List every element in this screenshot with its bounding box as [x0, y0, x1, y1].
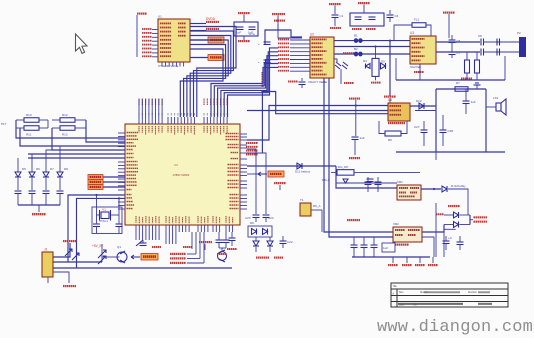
net label DVDD right of U1 [206, 17, 219, 23]
wire R11 ends [16, 127, 48, 129]
label below VR2 [395, 244, 409, 246]
svg-text:+: + [258, 42, 260, 46]
caps above VR1 [365, 177, 382, 192]
wire loop right [485, 89, 487, 152]
wire vr right vert b [443, 229, 455, 257]
svg-text:AT89C 51RD2: AT89C 51RD2 [173, 173, 190, 177]
svg-text:C?a: C?a [249, 32, 255, 36]
wire bundle jog to U6 pin3 [262, 92, 388, 114]
svg-text:D5: D5 [22, 167, 26, 171]
U4 right pins and pin labels [226, 133, 248, 209]
wire loop bottom [396, 151, 505, 153]
connector T1 [300, 198, 311, 216]
ferrite bead B1 on net1 [354, 34, 363, 43]
svg-text:D11 battery: D11 battery [295, 170, 311, 174]
boxed net label PWM1 [141, 254, 158, 261]
diode D13 schottky [442, 184, 466, 192]
label below U1 [158, 64, 179, 68]
net labels left of U2 [278, 39, 310, 72]
cap C20 below U4 [216, 232, 223, 248]
net label left edge [1, 122, 7, 126]
svg-text:R7: R7 [456, 81, 460, 85]
wire crystal right leg [111, 198, 120, 223]
wire bus line3 [20, 128, 125, 146]
svg-text:C?IIa/IIb-VCCa: C?IIa/IIb-VCCa [158, 64, 179, 68]
cap C27 [414, 121, 428, 146]
wire R10 ends [16, 119, 48, 121]
wire U4 to U6 pin2 [247, 110, 388, 112]
wire left vert C [86, 120, 125, 142]
power label AVDD top [329, 3, 341, 5]
wire diode array bottom rail [18, 204, 60, 206]
wire U2 to U3 net2 [334, 46, 410, 48]
wire caps box to DVSS [243, 36, 245, 40]
diode D4 left of R3 [363, 59, 370, 69]
wire L1 right into U3 [426, 25, 431, 36]
mouse cursor [76, 34, 88, 53]
wire T1 net down [321, 210, 323, 232]
power label +VDD left of U6 [349, 98, 360, 100]
resistor R4 [465, 52, 470, 80]
power label DVSS below C2 [352, 28, 362, 30]
power label PVDD right [448, 205, 460, 207]
U4 top pins and pin labels [138, 113, 227, 135]
diode D5 right of R3 [381, 60, 386, 70]
label below U3 [410, 65, 421, 69]
wire DVDD to caps box [243, 15, 245, 23]
wire T1 right [311, 204, 322, 210]
net label vertical on bundle [262, 72, 264, 87]
svg-text:+: + [258, 60, 260, 64]
net label blue near U1 box [249, 32, 255, 36]
power label VSS below U4 a [152, 246, 161, 248]
svg-text:R13: R13 [62, 133, 68, 137]
wire left vert B [47, 120, 49, 128]
caps row below VR2 b [361, 237, 368, 257]
wire U1 pin to DVDD [190, 23, 206, 25]
wire array to DVDD [38, 205, 40, 212]
wire U4 to U6 pin1 [247, 106, 388, 141]
resistor R6 below U6 [385, 131, 401, 142]
diode D17 small [343, 179, 348, 183]
wire battery net down to VR1 [336, 166, 397, 188]
wire U4 bottom stubs g1 [136, 232, 159, 240]
cap C8 series [478, 34, 484, 46]
wire PWM0 to U4 [103, 176, 125, 178]
IC U6 [388, 98, 410, 121]
svg-text:D-Schottky: D-Schottky [451, 184, 466, 188]
boxed net label PWM0 [88, 175, 103, 180]
cap C6 [449, 35, 461, 47]
svg-text:1uF: 1uF [360, 136, 365, 140]
boxed net label PWM2 [88, 185, 103, 190]
wire VR2 out b [422, 237, 434, 257]
wire PWM1 to U4 [103, 181, 125, 183]
power label DVDD top mid [272, 13, 285, 15]
wire U4 to battery diode [247, 165, 336, 167]
diode D16 [267, 237, 273, 252]
diode D11 battery [295, 163, 311, 174]
power label DVSS below C3 [366, 28, 376, 30]
svg-text:R11: R11 [26, 133, 32, 137]
wire DVDD loop [265, 30, 302, 44]
power label +VDD above U6 [384, 96, 396, 98]
svg-text:R12: R12 [62, 113, 68, 117]
diode D14b [444, 222, 470, 228]
wire DVDD to C2C3 [363, 5, 365, 14]
svg-text:Title: Title [393, 285, 398, 288]
junction X1 [95, 194, 97, 196]
power label AVSS below J1 [53, 272, 76, 287]
diode D7 with cap C14 [43, 163, 55, 205]
wire VR1 out [421, 188, 441, 190]
optocoupler arrows b [65, 249, 79, 260]
power label +5V_A above J1 [63, 240, 77, 242]
power label DVSS below R3 [371, 82, 381, 84]
svg-text:C1: C1 [340, 14, 344, 18]
ground top right [474, 83, 481, 89]
power label DVSS below U2 left [288, 81, 298, 83]
svg-text:XTAL1: XTAL1 [99, 219, 108, 223]
cap C below U2 [299, 78, 306, 88]
svg-text:1uF: 1uF [471, 100, 476, 104]
capacitors C2 C3 box [350, 13, 384, 26]
svg-text:fOa?/aE: fOa?/aE [410, 65, 421, 69]
svg-text:U2: U2 [310, 33, 314, 37]
wire diode cluster [415, 110, 436, 112]
power label DVDD above U2 bundle [274, 20, 285, 31]
connector P2 [517, 31, 526, 57]
wire Q1 base [102, 256, 115, 258]
cap Ca below U2 right [334, 59, 341, 69]
power label AVSS below C25 [349, 157, 360, 159]
power labels below VR2 rail [388, 257, 438, 266]
wire loop to speaker [486, 106, 496, 108]
cap C9 series [481, 49, 484, 56]
power label VSS below C18 [227, 248, 237, 250]
net labels above U4 top pins group1 [138, 99, 162, 106]
wire J1 pin2 [53, 261, 102, 263]
svg-text:D12: D12 [416, 99, 422, 103]
svg-text:C22: C22 [287, 240, 293, 244]
cap C32 [457, 236, 464, 250]
wire left vert A [16, 120, 125, 138]
wire C20 C21 join [219, 248, 226, 252]
label below U6 [388, 122, 405, 124]
cap C24 [263, 215, 274, 222]
svg-text:Size: Size [399, 292, 404, 294]
net label above-left of U1 [137, 13, 147, 15]
wire U1 pin to AVSS [190, 30, 206, 32]
wire R12 ends [52, 119, 86, 121]
net label VDD2 [436, 213, 444, 215]
wire +VDD to U6 [389, 98, 391, 103]
boxed net label PWM1 [88, 180, 103, 185]
power label +VDD right of U4 [274, 182, 286, 190]
cap C18 [229, 232, 236, 246]
power label DVDD top2 [358, 2, 370, 4]
power label +3VDD [474, 221, 488, 223]
diode D12 [416, 99, 424, 109]
power label VSS below U4 b [183, 246, 192, 248]
cap C1 [332, 6, 344, 27]
svg-text:R6: R6 [388, 138, 392, 142]
wire left of U1 down [136, 15, 138, 57]
title block [391, 283, 508, 307]
cap C4 [387, 10, 399, 22]
cap C7 [449, 47, 461, 58]
resistor R13 [60, 126, 75, 137]
wire U3 right pin1 [436, 41, 480, 43]
wire J1 pin3 long [53, 267, 232, 269]
wire R13 ends [52, 127, 86, 129]
IC VR1 regulator [397, 180, 421, 200]
wire VDD cap chain [355, 100, 357, 136]
crystal circuit box [92, 207, 122, 234]
svg-text:U4: U4 [174, 163, 178, 167]
wire VR2 bottom rail [352, 256, 430, 258]
power label DVDD above C10 [238, 12, 250, 14]
capacitors C10 C11 [234, 22, 258, 36]
wire BT1 to U4 [247, 173, 258, 175]
cap box C30 [382, 243, 395, 252]
cap C26 in loop [463, 89, 476, 114]
svg-text:DVDD: DVDD [206, 17, 216, 21]
svg-text:D9: D9 [250, 221, 254, 225]
svg-text:www.diangon.com: www.diangon.com [377, 318, 533, 337]
power label AVDD right of U3 [443, 12, 455, 14]
wire U3 bottom to rail [396, 58, 420, 80]
wire loop top [436, 88, 486, 90]
resistor R7 on loop top [455, 81, 468, 91]
cap C28 [440, 115, 454, 146]
power label AVDD below C22 [274, 257, 283, 259]
svg-text:B2: B2 [354, 47, 358, 51]
wire U3 right pin2 [436, 51, 480, 53]
resistor R5 [475, 52, 480, 80]
diode D8 with cap C15 [57, 163, 69, 205]
wire U2 bottom to LDO area A [324, 78, 393, 232]
wire after D13 [448, 189, 468, 215]
svg-text:T1: T1 [300, 198, 304, 202]
wire diode join [470, 215, 473, 225]
IC U1 [158, 15, 190, 63]
svg-text:VR2: VR2 [393, 222, 399, 226]
U4 bottom pins and pin labels [135, 216, 233, 232]
power label AVDD below D15 [256, 257, 269, 259]
svg-text:C4: C4 [395, 14, 399, 18]
cap Cb below U2 right [341, 62, 348, 84]
wire bus line6 [28, 157, 125, 159]
boxed net label BT1 [268, 171, 284, 177]
IC U4 AT89C51RD2 [125, 124, 240, 225]
cap on bundle a [258, 42, 271, 46]
svg-text:Rst_DP: Rst_DP [338, 165, 348, 169]
wire U4 bottom stubs g2 [166, 232, 176, 244]
wire J1 pin4 [47, 277, 49, 283]
svg-text:U3: U3 [410, 31, 414, 35]
resistor R11 [24, 126, 39, 137]
net labels PVDD AVDD DVDD [170, 253, 204, 264]
junction x355 y105 [355, 104, 357, 106]
wire vr right vert a [435, 203, 437, 257]
wire L1 left to net1 [394, 25, 412, 40]
diode D5 with cap C12 [15, 163, 27, 205]
wire J1 pin1 [53, 243, 70, 257]
wire DVDD down to IC2 net [278, 16, 302, 39]
power label DVDD below array [32, 213, 46, 215]
wire U1 pin to boxed label1 [190, 39, 208, 41]
svg-text:VR1: VR1 [397, 180, 403, 184]
cap C25 [352, 136, 365, 155]
svg-text:C28: C28 [448, 129, 454, 133]
power label +5VDD [474, 216, 488, 218]
junction net2 [374, 45, 376, 47]
wire loop left [435, 89, 437, 152]
boxed net label VB2 [208, 55, 224, 61]
arrow to BT1 [258, 172, 267, 176]
net labels above U4 top pins group2 [203, 99, 227, 106]
cap on bundle b [258, 60, 271, 64]
wire loop vert down [435, 152, 437, 160]
cap C16 [93, 224, 100, 234]
svg-text:U1: U1 [158, 15, 162, 19]
svg-text:Y1: Y1 [102, 208, 106, 212]
svg-text:C24: C24 [268, 216, 274, 220]
svg-text:C23: C23 [245, 216, 251, 220]
wire caps to connector2 [484, 51, 520, 53]
junction net1b [389, 40, 391, 42]
wire U1 pin to boxed label2 [190, 57, 208, 59]
cap C8b [497, 39, 500, 46]
diode D14a [444, 212, 470, 218]
wire U2 to U3 net1 [334, 40, 410, 42]
IC U2 [310, 33, 334, 79]
wire bottom rail right [396, 79, 505, 81]
svg-text:D4: D4 [363, 59, 367, 63]
arrow to PWM label [131, 255, 140, 259]
wire PWM2 to U4 [103, 186, 125, 188]
resistor R3 vertical [372, 47, 379, 81]
wire bundle down right of U4 [261, 92, 263, 154]
power label DVSS below U2 right [344, 82, 354, 84]
cap C19 below U4 [136, 240, 147, 246]
optocoupler arrows [92, 244, 106, 264]
resistor R10 [24, 113, 39, 122]
U1 bottom pin stubs [162, 62, 184, 67]
wire R6 loop [379, 121, 407, 134]
cap C22 [280, 236, 293, 248]
net label 5VDDIN on net3 [343, 52, 354, 54]
power label AVSS near R4R5 [461, 78, 472, 80]
cap C17 [116, 224, 123, 234]
svg-text:1uF: 1uF [236, 31, 241, 35]
svg-text:Q1: Q1 [117, 245, 121, 249]
IC U3 [410, 31, 436, 64]
inductor L1 [412, 18, 426, 28]
power label +VDD mid-bottom [199, 241, 212, 250]
IC VR2 regulator [393, 222, 422, 242]
resistor R12 [60, 113, 75, 122]
svg-text:D6: D6 [36, 167, 40, 171]
label below U2 [308, 80, 327, 84]
wire X2 net [77, 198, 126, 268]
transistor Q1 [115, 245, 127, 263]
svg-text:C27: C27 [414, 125, 420, 129]
svg-text:Revision: Revision [468, 292, 478, 294]
staircase wires U1 to U4 [180, 27, 236, 118]
svg-text:P1?: P1? [1, 122, 7, 126]
wire opto vert [101, 244, 103, 262]
wires U4 pins to PVDD labels [196, 232, 204, 263]
boxed net label VB1 [208, 37, 224, 43]
net labels left of U1 [142, 28, 158, 57]
crystal Y1 [99, 208, 111, 223]
caps row below VR2 c [371, 237, 378, 257]
wire rail to connector [504, 56, 506, 80]
net label AVSS right of U1 [206, 28, 219, 30]
svg-text:C8: C8 [478, 34, 482, 38]
net labels right of U4 [246, 142, 258, 155]
watermark www.diangon.com [377, 318, 533, 337]
wire bus line4 [52, 128, 125, 150]
wire into VR1 low [336, 182, 397, 184]
speaker LS1 [493, 96, 506, 115]
wire VR2 out a [422, 225, 444, 233]
wire U2 to U3 net3 [334, 53, 410, 55]
wire U4 right down a [247, 149, 256, 214]
svg-text:1uF: 1uF [383, 246, 388, 250]
svg-text:P2: P2 [517, 31, 521, 35]
svg-text:FL1: FL1 [414, 18, 420, 22]
wire array top connects [18, 146, 60, 163]
junction X2 [118, 197, 120, 199]
cap C23 [245, 215, 260, 222]
junction VR1 out [433, 188, 435, 190]
cap C31 [443, 236, 453, 250]
power label AVSS below U3 [414, 64, 424, 73]
wire bus line5 [28, 153, 125, 155]
caps row below VR2 a [351, 237, 358, 257]
svg-text:R10: R10 [26, 113, 32, 117]
wire X1 net [68, 195, 125, 262]
svg-text:D5: D5 [381, 60, 385, 64]
U4 left pins and pin labels [118, 132, 138, 209]
svg-text:R9_A: R9_A [313, 204, 321, 208]
cap C9b [497, 49, 500, 56]
diode pair D9 D10 box [248, 221, 272, 237]
resistor RN1 Rst_DP [337, 165, 354, 175]
svg-text:R8+1: R8+1 [322, 178, 330, 182]
wire crystal left leg [97, 195, 100, 223]
svg-text:D8: D8 [64, 167, 68, 171]
svg-text:J1: J1 [44, 248, 48, 252]
connector J1 [42, 248, 53, 278]
wire U6 to loop [410, 105, 436, 107]
wire stubs into U4 top pins [139, 99, 162, 117]
power label VSS below C20 [217, 253, 227, 255]
wire caps to connector1 [484, 41, 520, 43]
wire U2 bottom to LDO area B [329, 78, 393, 237]
staircase wires U2 to U4 [211, 48, 278, 117]
wire AVDD down [448, 14, 450, 38]
diode D15 [253, 237, 259, 252]
wire net1 down to U6 [389, 41, 391, 96]
power label DVSS below caps box [238, 40, 250, 42]
svg-text:D7: D7 [50, 167, 54, 171]
power label AVSS below C1 [330, 27, 341, 29]
caps top near VR1 [367, 179, 374, 182]
